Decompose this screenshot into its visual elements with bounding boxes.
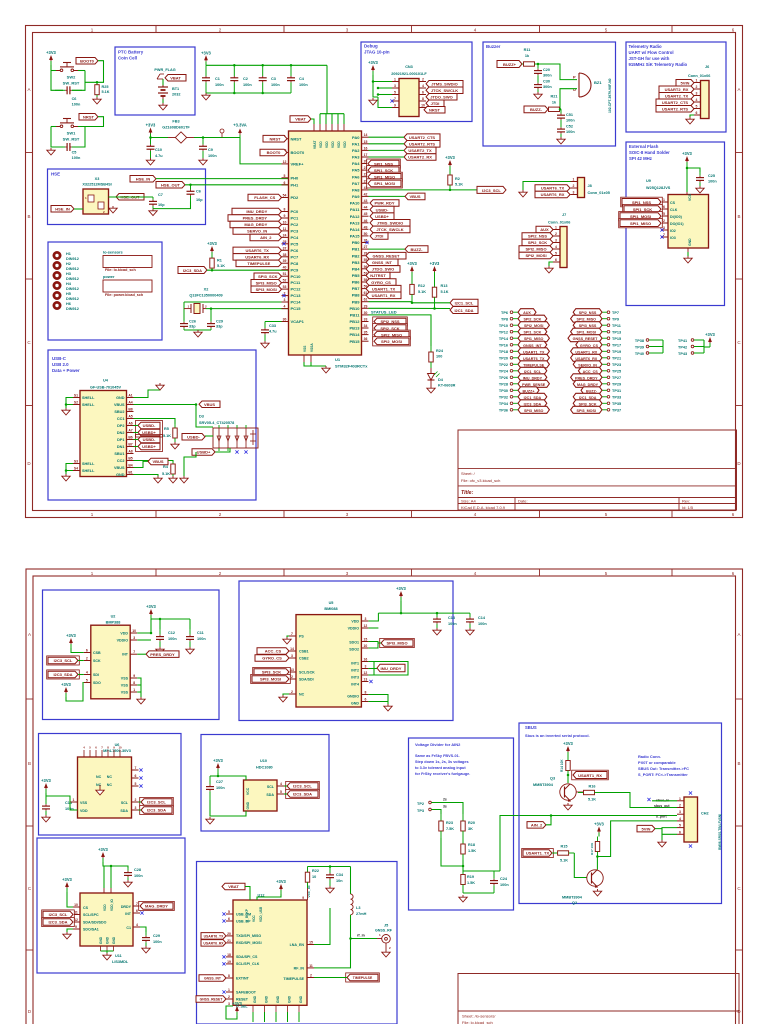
svg-text:+3V3: +3V3 xyxy=(563,741,573,746)
pin 4 CH2 xyxy=(677,817,684,821)
svg-text:C20: C20 xyxy=(543,68,550,72)
svg-text:Same as FrSky FBVS-01.: Same as FrSky FBVS-01. xyxy=(415,754,460,758)
svg-text:PA7: PA7 xyxy=(352,181,360,186)
svg-text:B7: B7 xyxy=(128,443,132,447)
ground (U6 vss) xyxy=(96,785,104,795)
svg-text:UART w/ Flow Control: UART w/ Flow Control xyxy=(629,50,674,55)
label USBD- (D3) xyxy=(182,434,205,441)
svg-text:+3V3: +3V3 xyxy=(201,50,211,55)
U6 top pins xyxy=(83,746,122,758)
svg-text:JTMS_SWDIO: JTMS_SWDIO xyxy=(431,81,457,86)
svg-text:8: 8 xyxy=(364,691,366,695)
svg-text:RXD/SPI_MOSI: RXD/SPI_MOSI xyxy=(236,941,262,945)
wire VCAP1 xyxy=(265,321,289,323)
ground (C12) xyxy=(156,647,164,654)
svg-text:3: 3 xyxy=(364,665,366,669)
svg-text:NC: NC xyxy=(96,775,102,779)
svg-text:INT2: INT2 xyxy=(351,669,359,673)
svg-text:100n: 100n xyxy=(708,180,717,184)
wire FB3 right xyxy=(194,137,240,139)
svg-text:R2: R2 xyxy=(455,177,460,181)
pin DN2 U4 xyxy=(117,429,134,436)
svg-text:PA15: PA15 xyxy=(350,234,360,239)
svg-text:15: 15 xyxy=(364,140,368,144)
pin SDO U11 xyxy=(73,925,80,929)
svg-text:PRES_DRDY: PRES_DRDY xyxy=(575,376,598,380)
svg-text:5.1K: 5.1K xyxy=(588,798,596,802)
svg-text:USART6_TX: USART6_TX xyxy=(523,357,545,361)
svg-text:VCC: VCC xyxy=(252,915,256,922)
svg-text:JTDO_SWO: JTDO_SWO xyxy=(430,94,452,99)
svg-text:HSE_IN: HSE_IN xyxy=(136,176,151,181)
svg-text:6: 6 xyxy=(364,698,366,702)
svg-text:FLASH_CS: FLASH_CS xyxy=(254,195,275,200)
svg-text:10: 10 xyxy=(132,629,136,633)
pin 10 CN3 xyxy=(419,104,426,108)
svg-text:TP25: TP25 xyxy=(612,370,621,374)
wire PB11 STATUS_LED xyxy=(369,315,432,346)
label SPI1_MOSI xyxy=(367,179,403,188)
pin SHELL U4 top xyxy=(73,394,95,408)
svg-text:300n: 300n xyxy=(543,74,552,78)
connector U4 xyxy=(80,391,127,477)
label IMU_DRDY (U5) xyxy=(377,664,405,672)
svg-text:7: 7 xyxy=(133,650,135,654)
svg-text:5: 5 xyxy=(555,252,557,256)
wire VBUS to D3 xyxy=(196,405,213,428)
resistor R11 label xyxy=(524,48,531,58)
wire CN3 pin3b xyxy=(378,87,392,89)
svg-text:SW_RST: SW_RST xyxy=(63,81,80,86)
svg-text:MMBT3904: MMBT3904 xyxy=(562,896,583,900)
svg-text:PS: PS xyxy=(299,634,304,638)
svg-text:JTMS_SWDIO: JTMS_SWDIO xyxy=(377,221,403,226)
svg-text:15: 15 xyxy=(364,638,368,642)
ground (CH2) xyxy=(658,840,666,847)
svg-text:100n: 100n xyxy=(168,637,177,641)
svg-text:USART1_RX: USART1_RX xyxy=(372,293,396,298)
pin PA13 MCU xyxy=(350,219,369,226)
label MAG_DRDY (U11) xyxy=(139,901,175,910)
wire C6 bottom to gnd xyxy=(153,202,191,209)
wire U11 vccio xyxy=(110,866,112,888)
wire R11 to BZ1 xyxy=(536,64,577,80)
svg-text:NRST: NRST xyxy=(270,136,281,141)
wire CN3 pin9 xyxy=(378,97,392,108)
no-connect PC5 xyxy=(282,242,285,245)
pin SDA U11 xyxy=(73,918,80,922)
svg-text:Voltage Divider for AIN2: Voltage Divider for AIN2 xyxy=(415,742,461,747)
svg-text:PC12: PC12 xyxy=(291,287,302,292)
svg-text:10: 10 xyxy=(312,875,316,879)
pin INT U11 xyxy=(133,909,140,913)
svg-text:2: 2 xyxy=(573,184,575,188)
label BUZZ- (MCU) xyxy=(405,246,428,253)
svg-text:43: 43 xyxy=(364,199,368,203)
test point TP11 xyxy=(573,322,621,329)
ground (U4 gnd top) xyxy=(156,383,164,390)
mounting hole H5 xyxy=(54,292,79,301)
svg-text:H6: H6 xyxy=(66,302,71,306)
note text Debug xyxy=(364,44,390,55)
wire L3 bottom xyxy=(350,915,352,939)
wire CN3 pin1 xyxy=(373,75,392,82)
svg-text:SCL/SPC: SCL/SPC xyxy=(83,913,99,917)
power +3V3 (CN3) xyxy=(368,60,378,75)
label I2C3_SCL (U11) xyxy=(42,910,75,919)
svg-text:10: 10 xyxy=(421,104,425,108)
svg-text:P: P xyxy=(573,75,576,80)
svg-text:PB4: PB4 xyxy=(352,266,361,271)
svg-text:I2C3_SDA: I2C3_SDA xyxy=(147,808,166,813)
wire U6 vdd2 xyxy=(46,796,78,810)
svg-text:PA8: PA8 xyxy=(352,188,360,193)
svg-text:Conn_01x05: Conn_01x05 xyxy=(588,191,610,195)
wire vdd drop 3 xyxy=(337,114,339,124)
svg-text:J6: J6 xyxy=(705,65,709,69)
wire VREF xyxy=(240,138,282,164)
pin PB8 MCU xyxy=(352,291,369,298)
svg-text:10: 10 xyxy=(283,220,287,224)
no-connect U9 IO2 xyxy=(660,228,663,231)
svg-text:GND: GND xyxy=(276,995,280,1003)
wire U5 PS xyxy=(287,636,289,637)
svg-text:29: 29 xyxy=(364,304,368,308)
svg-text:GND: GND xyxy=(288,995,292,1003)
svg-text:42: 42 xyxy=(364,192,368,196)
wire PA3 xyxy=(369,156,405,158)
connector J6 label xyxy=(688,65,710,78)
pin 4 J7 xyxy=(553,245,560,249)
pin 5 CH2 xyxy=(677,824,684,828)
label USART2_RTS xyxy=(404,141,440,148)
svg-text:SPI2_NSS: SPI2_NSS xyxy=(528,234,547,239)
no-connect U9 IO3 xyxy=(660,235,663,238)
svg-text:VDD: VDD xyxy=(351,620,359,624)
label I2C3_SDA (U6) xyxy=(140,805,174,814)
pin GND U5 xyxy=(361,698,368,702)
svg-text:5.1K: 5.1K xyxy=(162,472,170,476)
wire U4 GND top xyxy=(134,385,161,398)
svg-text:2: 2 xyxy=(696,85,698,89)
label SPI2_MISO (MCU) xyxy=(373,330,411,339)
label JTCK_SWCLK xyxy=(426,87,463,94)
ground (J5) xyxy=(382,950,390,957)
label USART2_TX xyxy=(404,147,436,154)
net name sbus_in xyxy=(647,798,669,803)
svg-text:VBUS: VBUS xyxy=(152,459,163,464)
wire U4 VBUS2 xyxy=(134,461,149,467)
capacitor C9 xyxy=(199,138,217,159)
svg-text:BUZZ-: BUZZ- xyxy=(530,107,543,112)
svg-text:PC13: PC13 xyxy=(291,293,302,298)
label VBUS (U4 b) xyxy=(148,458,168,465)
capacitor C13 xyxy=(433,613,457,628)
label HSE_IN (top) xyxy=(130,176,156,183)
pin INT2 U5 xyxy=(361,665,368,669)
svg-text:5: 5 xyxy=(228,910,230,914)
svg-text:INT4: INT4 xyxy=(351,683,359,687)
wire DP2 xyxy=(134,425,139,427)
svg-text:SPI1_MISO: SPI1_MISO xyxy=(524,337,544,341)
svg-text:BOOT0: BOOT0 xyxy=(80,58,95,63)
wire U11 gnd2 xyxy=(106,951,108,953)
pin SCL U12 xyxy=(222,960,233,966)
wire BOOT0 link xyxy=(85,61,104,83)
label SERVO_IN (MCU) xyxy=(233,228,282,235)
svg-text:GND: GND xyxy=(253,995,257,1003)
test point TP8 xyxy=(501,315,547,322)
wire NRST link xyxy=(78,117,104,127)
svg-text:BMP388: BMP388 xyxy=(106,621,121,625)
svg-text:TP30: TP30 xyxy=(499,389,508,393)
svg-text:PC8: PC8 xyxy=(291,261,300,266)
pin VSS U2 2 xyxy=(130,681,137,685)
pin U9 vcc xyxy=(686,192,688,195)
svg-text:R25: R25 xyxy=(102,85,109,89)
svg-text:R24: R24 xyxy=(436,349,444,353)
pin U9 l3 xyxy=(661,219,668,223)
mounting hole H2 xyxy=(54,262,79,271)
svg-text:10: 10 xyxy=(74,903,78,907)
pin 6 CH2 xyxy=(677,830,684,834)
ground (C11) xyxy=(186,647,194,654)
svg-text:4: 4 xyxy=(422,84,424,88)
power +3V3 (U2 CSB) xyxy=(66,633,76,648)
label NRST (CN3) xyxy=(424,107,445,114)
junction xyxy=(559,108,562,111)
svg-text:R16: R16 xyxy=(589,785,596,789)
label SPI2_SCK (MCU) xyxy=(373,324,408,333)
svg-text:SBU1: SBU1 xyxy=(114,452,124,456)
svg-text:SDA: SDA xyxy=(266,793,274,797)
ground (X2 caps) xyxy=(194,330,202,337)
label SPI3_MOSI (U5) xyxy=(251,674,291,683)
wire HSE_OUT to MCU PH1 xyxy=(185,184,289,186)
svg-text:33p: 33p xyxy=(216,325,223,329)
pin USB_DM U12 xyxy=(222,910,233,916)
svg-text:5.1K: 5.1K xyxy=(560,859,568,863)
svg-text:2: 2 xyxy=(291,690,293,694)
wire U2 CSB xyxy=(71,648,84,653)
wire VDD comb riser xyxy=(326,65,328,113)
note box SBUS xyxy=(519,723,722,904)
note text SBUS xyxy=(525,725,590,738)
svg-text:RF_IN: RF_IN xyxy=(294,967,305,971)
test point TP35 xyxy=(573,400,621,407)
note box LIS3MDL xyxy=(37,838,185,973)
no-connect CH2 mount xyxy=(689,791,692,847)
wire X2 to PC14 xyxy=(184,301,289,303)
svg-text:C11: C11 xyxy=(197,631,204,635)
svg-text:File: lo.kicad_sch: File: lo.kicad_sch xyxy=(105,268,136,272)
MCU U1 label xyxy=(335,357,368,368)
pin U9 l4 xyxy=(661,226,668,230)
BMI088 U5 label xyxy=(324,601,337,611)
svg-text:PB0: PB0 xyxy=(352,240,361,245)
connector J7 xyxy=(560,227,567,268)
label HSE_OUT (X3) xyxy=(116,194,144,201)
svg-text:S1: S1 xyxy=(74,394,78,398)
power +3V3 (U5) xyxy=(396,586,406,601)
flash U9 xyxy=(668,193,709,248)
svg-text:CSB1: CSB1 xyxy=(299,649,309,653)
net name 3s xyxy=(443,805,447,809)
pin VSS U2 3 xyxy=(130,688,137,692)
test point TP10 xyxy=(499,322,549,329)
pin PA7 MCU xyxy=(352,179,368,186)
test point TP33 xyxy=(573,393,621,400)
svg-text:2s: 2s xyxy=(443,798,447,802)
pin SDO U2 xyxy=(84,679,91,683)
svg-text:6: 6 xyxy=(228,917,230,921)
svg-text:PB10: PB10 xyxy=(349,306,360,311)
svg-text:JTAG 10-pin: JTAG 10-pin xyxy=(364,50,390,55)
pin PC14 MCU xyxy=(282,298,302,305)
svg-text:GNSS_RF: GNSS_RF xyxy=(375,929,393,933)
pin PB2 MCU xyxy=(352,252,369,259)
wire vdd drop 4 xyxy=(343,114,345,124)
pin CSB U2 xyxy=(84,649,91,653)
pin U9 l0 xyxy=(661,198,668,202)
svg-text:U2: U2 xyxy=(111,615,116,619)
power flag PWR_FLAG xyxy=(154,68,175,79)
D3 pin ticks xyxy=(219,425,246,451)
label GNSS_INT (MCU) xyxy=(366,259,398,266)
title block page2 xyxy=(458,974,739,1024)
test point TP2 xyxy=(417,801,431,806)
svg-text:VSS: VSS xyxy=(121,691,129,695)
test point TP21 xyxy=(571,354,621,361)
svg-text:SPI2_MISO: SPI2_MISO xyxy=(525,247,546,252)
pin PC8 MCU xyxy=(282,259,300,266)
pin SCL U11 xyxy=(73,911,80,915)
svg-text:SBUS Out: Transmitter->FC: SBUS Out: Transmitter->FC xyxy=(638,766,689,771)
svg-text:I2C3_SDA: I2C3_SDA xyxy=(183,268,202,273)
label I2C3_SCL (U2) xyxy=(47,656,80,665)
svg-text:USART6_TX: USART6_TX xyxy=(541,186,565,191)
svg-text:33: 33 xyxy=(364,318,368,322)
wire U9 gnd xyxy=(687,252,689,256)
svg-text:30: 30 xyxy=(283,318,287,322)
svg-text:TIMEPULSE: TIMEPULSE xyxy=(353,976,373,980)
svg-text:2: 2 xyxy=(663,219,665,223)
power +3V3 (U2 SDO) xyxy=(61,682,71,697)
pin INT3 U5 xyxy=(361,671,368,675)
pin 6 CN3 xyxy=(419,91,426,95)
svg-text:INT3: INT3 xyxy=(351,676,359,680)
wire U6 scl xyxy=(139,801,142,803)
svg-text:C26: C26 xyxy=(189,320,196,324)
pin PC6 MCU xyxy=(282,246,300,253)
junction xyxy=(686,167,689,170)
resistor R22 xyxy=(305,867,319,889)
svg-text:BT1: BT1 xyxy=(172,87,179,91)
svg-text:GND: GND xyxy=(116,473,125,477)
svg-text:I2C3_SCL: I2C3_SCL xyxy=(293,784,312,789)
svg-text:100n: 100n xyxy=(215,83,224,87)
usb data pills xyxy=(136,421,163,452)
svg-text:27mH: 27mH xyxy=(356,912,367,916)
pin PB14 MCU xyxy=(349,331,368,338)
wire DP1 xyxy=(134,439,139,441)
svg-text:18: 18 xyxy=(227,953,231,957)
svg-text:TP41: TP41 xyxy=(678,339,687,343)
svg-text:C6: C6 xyxy=(72,97,77,101)
svg-text:PC6: PC6 xyxy=(291,248,300,253)
wire U11 c28 branch xyxy=(104,866,128,868)
svg-text:+3V3: +3V3 xyxy=(705,332,715,337)
pin TIMEPULSE U12 xyxy=(307,974,314,978)
svg-text:2: 2 xyxy=(679,804,681,808)
MCU top pin names xyxy=(313,141,347,149)
svg-text:R5: R5 xyxy=(164,427,169,431)
note box Barometer xyxy=(43,590,220,720)
label ACC_CS (U5) xyxy=(257,648,289,655)
svg-text:PC0: PC0 xyxy=(291,209,300,214)
label VBUS (U4) xyxy=(199,401,220,408)
LED D4 xyxy=(428,368,456,388)
svg-text:I2C1_SDA: I2C1_SDA xyxy=(454,308,473,313)
svg-text:I2C3_SDA: I2C3_SDA xyxy=(53,672,72,677)
svg-text:VCC: VCC xyxy=(688,193,692,201)
label SPI3_MISO (U5) xyxy=(380,638,415,647)
wire cap bank rail top xyxy=(206,64,327,66)
wire U6 vdd xyxy=(45,793,47,800)
label NRST xyxy=(79,114,98,121)
wire SW1 top left xyxy=(51,126,56,128)
test point TP39 xyxy=(635,345,663,349)
svg-text:D3: D3 xyxy=(199,415,204,419)
junction xyxy=(210,307,213,310)
ground (J7) xyxy=(545,266,553,273)
svg-text:44: 44 xyxy=(364,206,368,210)
svg-text:TP21: TP21 xyxy=(612,357,621,361)
svg-text:8: 8 xyxy=(228,974,230,978)
wire SW2 left xyxy=(51,65,63,90)
svg-text:SPI3_MISO: SPI3_MISO xyxy=(524,409,544,413)
pin 3 J7 xyxy=(553,239,560,243)
pin VDD0 stub xyxy=(319,124,321,131)
test point TP15 xyxy=(568,335,621,342)
svg-text:SDA/SDI/SDO: SDA/SDI/SDO xyxy=(83,921,107,925)
wire U11 sdo xyxy=(67,929,73,932)
wire DN1 xyxy=(134,446,139,448)
svg-text:ACC_CS: ACC_CS xyxy=(265,649,282,654)
svg-text:VBUS: VBUS xyxy=(114,403,125,407)
ground (D4) xyxy=(427,386,435,393)
svg-text:VSS: VSS xyxy=(121,677,129,681)
svg-text:VCC_RF: VCC_RF xyxy=(307,885,311,897)
label USART1_RX (SBUS) xyxy=(572,770,609,780)
svg-text:IMU_DRDY: IMU_DRDY xyxy=(381,666,402,671)
label SPI2_SCK (J7) xyxy=(522,239,553,246)
svg-text:PA0: PA0 xyxy=(352,135,360,140)
crystal X2 body xyxy=(184,302,211,320)
pin PC13 MCU xyxy=(282,292,302,299)
svg-text:1: 1 xyxy=(133,688,135,692)
wire C11 drop xyxy=(189,619,191,629)
svg-text:4: 4 xyxy=(280,782,282,786)
svg-text:SDO2: SDO2 xyxy=(349,648,359,652)
pin SHELL U4 bottom xyxy=(73,460,95,474)
svg-text:BUZZ-: BUZZ- xyxy=(411,247,424,252)
wire TP38 join xyxy=(662,340,664,353)
svg-text:JTCK_SWCLK: JTCK_SWCLK xyxy=(431,88,458,93)
label 5VIN (J6) xyxy=(676,80,694,87)
capacitor C52 xyxy=(557,124,575,137)
svg-text:PA14: PA14 xyxy=(350,227,360,232)
